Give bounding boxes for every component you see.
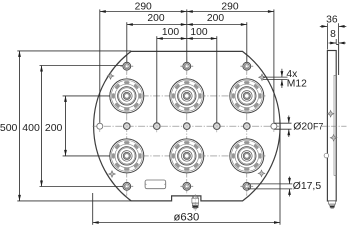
hex hole H3 <box>240 60 253 73</box>
dim line 200 top left <box>127 24 187 26</box>
arrows 290 left <box>100 10 106 13</box>
centerline row 2 <box>108 155 267 157</box>
side hole left Ø20F7 <box>97 123 103 129</box>
ext line col +290 <box>273 9 275 122</box>
arrows top dims <box>18 10 280 224</box>
svg-text:100: 100 <box>162 27 179 38</box>
centerline column 3 <box>246 57 248 196</box>
side view body <box>327 51 336 202</box>
M12 marker bottom-left <box>109 171 116 178</box>
ext line 400 top <box>40 65 123 67</box>
arrows dia630 <box>93 221 99 224</box>
plate outline <box>94 51 280 201</box>
hex hole H6 <box>240 180 253 193</box>
ext line 200 row1 <box>63 95 110 97</box>
bearing B5 bottom-middle <box>170 139 204 173</box>
ext line col center <box>186 9 188 62</box>
centerline column 1 <box>126 57 128 196</box>
hex hole H5 <box>180 180 193 193</box>
arrows 290 right <box>187 10 193 13</box>
side view star upper <box>327 110 334 117</box>
hex hole H2 <box>180 60 193 73</box>
arrows 200 left <box>64 96 67 102</box>
ext line col -200 <box>126 22 128 62</box>
mid hole P0 <box>124 123 131 130</box>
dim line 100 right <box>187 38 217 40</box>
svg-text:M12: M12 <box>287 78 307 89</box>
arrows 400 <box>40 66 43 72</box>
svg-text:200: 200 <box>207 13 224 24</box>
ext line col +200 <box>246 22 248 62</box>
svg-text:8: 8 <box>330 29 336 40</box>
svg-text:Ø17,5: Ø17,5 <box>293 181 322 192</box>
callout dia20F7 <box>274 116 324 138</box>
dim 8 <box>329 29 346 44</box>
ext line 200 row2 <box>63 155 110 157</box>
svg-text:290: 290 <box>135 1 152 12</box>
hex hole H1 <box>120 60 133 73</box>
dim line 100 left <box>157 38 187 40</box>
slot rounded rectangle <box>145 180 166 189</box>
M12 marker top-left <box>107 73 114 80</box>
svg-text:290: 290 <box>221 1 238 12</box>
dim 36 <box>320 15 347 50</box>
svg-text:200: 200 <box>45 122 63 134</box>
mid hole P2 <box>184 123 191 130</box>
side view centerline <box>321 125 347 127</box>
side hole right Ø20F7 <box>271 123 277 129</box>
side view star lower <box>330 135 337 142</box>
bearing B4 bottom-left <box>110 139 144 173</box>
svg-text:Ø20F7: Ø20F7 <box>293 122 323 133</box>
svg-text:ø630: ø630 <box>174 212 200 224</box>
dim line dia630 <box>93 222 280 224</box>
mid hole P4 <box>244 123 251 130</box>
ext line col -290 <box>99 9 101 122</box>
dim line 200 top right <box>187 24 247 26</box>
M12 marker bottom-right <box>258 170 265 177</box>
arrows 200 top <box>127 23 133 26</box>
plug centerline <box>194 194 196 211</box>
svg-text:400: 400 <box>22 122 40 134</box>
ext line col +100 <box>216 36 218 123</box>
dim line 290 left <box>100 11 187 13</box>
arrows 100 <box>157 37 163 40</box>
bearing B6 bottom-right <box>230 139 264 173</box>
side view plug <box>328 201 335 209</box>
side view hole circle <box>324 153 329 158</box>
M12 marker top-right <box>259 74 266 81</box>
centerline horizontal mid <box>93 125 282 127</box>
ext line col -100 <box>156 36 158 123</box>
ext line dia630 left <box>92 193 94 225</box>
plug front view <box>192 196 199 209</box>
arrows 500 <box>18 51 21 57</box>
side view step line <box>334 75 336 175</box>
ext line 400 bottom <box>40 186 123 188</box>
callout 4x M12 <box>263 69 307 90</box>
centerline row 1 <box>108 95 267 97</box>
centerline stubs side hole left <box>100 120 274 132</box>
svg-text:200: 200 <box>147 13 164 24</box>
dim line 400 <box>41 66 43 187</box>
bearing B1 top-left <box>110 79 144 113</box>
dim line 200 left <box>65 96 67 156</box>
svg-text:500: 500 <box>0 122 18 134</box>
bearing B3 top-right <box>230 79 264 113</box>
ext line dia630 right <box>279 128 281 225</box>
side view top-right strip <box>336 45 338 76</box>
ext line bottom flat left <box>17 200 131 202</box>
dim line 290 right <box>187 11 274 13</box>
mid hole P1 <box>154 123 161 130</box>
svg-text:100: 100 <box>190 27 207 38</box>
ext line top flat left <box>17 50 131 52</box>
callout dia17,5 <box>248 177 321 197</box>
hex hole H4 <box>120 180 133 193</box>
dim line 500 <box>19 51 21 201</box>
centerline column 2 <box>186 57 188 194</box>
bearing B2 top-middle <box>170 79 204 113</box>
svg-text:36: 36 <box>326 15 338 26</box>
mid hole P3 <box>214 123 221 130</box>
